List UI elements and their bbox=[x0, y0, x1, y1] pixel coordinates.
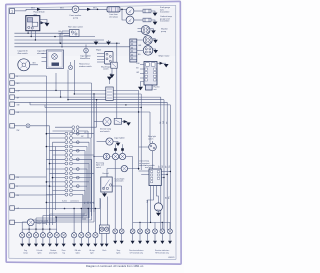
wire plug b stubs bbox=[137, 39, 156, 40]
coolant temp sender bbox=[143, 18, 151, 22]
svg-text:RH front/side only: RH front/side only bbox=[155, 251, 169, 254]
wire bus 202 bbox=[46, 201, 94, 203]
ground horn bbox=[157, 211, 159, 213]
wire s2 feed bbox=[14, 83, 91, 138]
wire hazard unit to ground bbox=[40, 20, 47, 23]
wire band 107.5 bbox=[45, 105, 141, 108]
wire gauge to sender bbox=[134, 10, 143, 12]
lamp bottom midleft bbox=[86, 233, 91, 238]
ground unit top bbox=[164, 64, 169, 67]
wire feeds to unit bbox=[139, 171, 149, 175]
svg-text:and switch: and switch bbox=[100, 130, 109, 133]
wire pu square to fog lamp bbox=[14, 221, 27, 223]
svg-text:switch: switch bbox=[103, 68, 109, 71]
lamp panel L2 bbox=[84, 48, 89, 53]
svg-text:window switch: window switch bbox=[79, 65, 92, 68]
svg-text:unit: unit bbox=[154, 88, 157, 91]
lamp bottom right bbox=[168, 229, 173, 234]
svg-text:lights: lights bbox=[76, 251, 80, 254]
connector unit U3 bbox=[149, 169, 161, 186]
wash wipe switch S2 bbox=[105, 52, 114, 65]
svg-text:LGP: LGP bbox=[17, 91, 20, 93]
lamp bottom right bbox=[145, 229, 150, 234]
wire unit to ground top bbox=[157, 62, 166, 64]
svg-text:WO: WO bbox=[60, 7, 64, 9]
ground unit bottom left bbox=[141, 82, 145, 87]
ground wiper a bbox=[151, 30, 156, 33]
wire chain left lamps bbox=[22, 229, 57, 233]
wire gauge to sender bbox=[134, 19, 143, 21]
ground lamp bbox=[132, 234, 134, 241]
lamp bottom right bbox=[130, 229, 135, 234]
lamp bottom left bbox=[20, 233, 25, 238]
ground lamp bbox=[94, 238, 96, 244]
svg-text:transmitter: transmitter bbox=[160, 11, 170, 14]
ground lamp bbox=[35, 238, 37, 244]
node 1 terminal square bbox=[10, 9, 15, 14]
svg-text:1: 1 bbox=[11, 10, 13, 14]
wire gauge branch bbox=[122, 9, 126, 20]
wire glovebox left bbox=[94, 121, 103, 123]
wire lighter stub bbox=[30, 64, 38, 66]
ladder third circles bbox=[76, 132, 79, 187]
ladder bus verticals bbox=[46, 76, 55, 225]
ground wiper motor bbox=[153, 50, 158, 53]
ground lamp bbox=[49, 238, 51, 244]
ground lamp bbox=[154, 234, 156, 241]
wire staircase from ladder feeders bbox=[22, 94, 94, 222]
ground lamp bbox=[121, 234, 123, 241]
svg-text:WO: WO bbox=[93, 7, 97, 9]
svg-text:GW: GW bbox=[17, 104, 20, 106]
wire vertical 117 bbox=[116, 43, 118, 118]
wire unit bottom drops bbox=[148, 186, 159, 223]
ground wiper b bbox=[153, 40, 158, 43]
lamp L4 bbox=[68, 65, 72, 69]
svg-text:Wiper motor: Wiper motor bbox=[159, 55, 170, 58]
clock K1 box bbox=[47, 50, 64, 69]
lamp bottom rmid bbox=[113, 229, 118, 234]
wire rmid drops bbox=[112, 160, 122, 229]
ground hazard unit bbox=[45, 23, 50, 27]
wire horn stub drops bbox=[60, 31, 64, 47]
ladder connector pairs bbox=[65, 132, 73, 196]
relay K2 bbox=[106, 87, 113, 100]
relay sub box bbox=[146, 85, 153, 90]
ground lamp bbox=[63, 238, 65, 244]
lamp clock pair bbox=[105, 227, 109, 231]
ground lamp bbox=[56, 238, 58, 244]
terminal squares upper bbox=[10, 74, 15, 78]
page background bbox=[0, 0, 184, 273]
connector strip X1 bbox=[130, 39, 137, 62]
lamp bottom right bbox=[160, 229, 165, 234]
junction dots band bbox=[55, 90, 56, 91]
lamp bottom left bbox=[47, 233, 52, 238]
wire midleft drops bbox=[74, 209, 95, 233]
inline connector arrow bbox=[41, 21, 44, 24]
svg-text:Diagram 2 continued. All model: Diagram 2 continued. All models from 199… bbox=[86, 264, 144, 268]
wire fuse to gauge bbox=[120, 8, 126, 10]
glovebox switch box bbox=[114, 118, 121, 124]
svg-text:Clock: Clock bbox=[102, 250, 106, 252]
ground cigar bbox=[116, 143, 121, 146]
cigar lighter L6 bbox=[106, 138, 113, 145]
ground lamp bbox=[80, 238, 82, 244]
hazard pilot lamp L7 bbox=[121, 165, 127, 171]
rear fog lamp L8 bbox=[27, 219, 34, 226]
lamp inline L3 bbox=[26, 124, 30, 128]
wire bottom right link bbox=[133, 221, 171, 223]
svg-text:lights: lights bbox=[38, 251, 42, 254]
wiper motor M2 plug a bbox=[141, 26, 150, 35]
wire s3 feed bbox=[14, 73, 138, 170]
wiper motor M2 plug b bbox=[143, 36, 152, 45]
terminal square PU lamp bbox=[10, 124, 15, 128]
label lamp names bbox=[23, 249, 169, 254]
clock display bbox=[52, 63, 60, 66]
svg-text:transmitter: transmitter bbox=[160, 20, 170, 23]
gauge G1 fuel bbox=[126, 7, 134, 15]
gauge G2 coolant temp bbox=[126, 16, 134, 24]
fuse F1 line fuse bbox=[107, 7, 120, 12]
fuel tank sender bbox=[143, 9, 151, 13]
ground fuel sender bbox=[151, 11, 155, 13]
wire gp row 208 bbox=[14, 198, 100, 209]
wire hazard lamp bbox=[107, 169, 139, 177]
wire top feed bbox=[15, 9, 107, 11]
ground heated rear window bbox=[110, 68, 112, 74]
svg-text:LGB: LGB bbox=[136, 63, 139, 65]
junction squares bbox=[114, 148, 117, 151]
ground lamp bbox=[28, 238, 30, 244]
wire lamp stub bbox=[85, 45, 87, 59]
svg-text:H30929: H30929 bbox=[168, 257, 174, 259]
svg-text:LH front/side only: LH front/side only bbox=[130, 251, 143, 254]
svg-text:GW: GW bbox=[163, 121, 165, 124]
ground lamp bbox=[147, 234, 149, 241]
wire stop light bbox=[139, 141, 153, 169]
wire s6 feed bbox=[14, 112, 150, 144]
inline connector arrow bbox=[160, 62, 163, 65]
wire wiper switch stubs bbox=[97, 54, 105, 63]
lamp clock pair bbox=[100, 227, 104, 231]
ladder junction dots bbox=[46, 133, 48, 135]
wire clock pair feeds bbox=[101, 197, 108, 226]
lamp bottom rmid bbox=[119, 229, 124, 234]
junction dots bundle bbox=[54, 36, 55, 37]
inline connector arrow bbox=[37, 8, 41, 11]
wire panel row bbox=[94, 144, 133, 222]
svg-text:switch: switch bbox=[96, 166, 101, 169]
lamp bottom midleft bbox=[79, 233, 84, 238]
lamp bottom midleft bbox=[93, 233, 98, 238]
wire band 104.9 bbox=[30, 102, 170, 230]
inline connector arrow bbox=[87, 8, 91, 11]
svg-text:Cigar lighter: Cigar lighter bbox=[114, 137, 125, 140]
lamp bottom right bbox=[153, 229, 158, 234]
wire s1 feed bbox=[14, 75, 46, 77]
wire s4 feed bbox=[14, 90, 160, 230]
wire plug a stubs bbox=[138, 29, 154, 32]
svg-text:Hazard: Hazard bbox=[103, 172, 109, 175]
ground lamp bbox=[114, 234, 116, 241]
svg-text:GW: GW bbox=[147, 200, 149, 203]
ground lamp bbox=[87, 238, 89, 244]
svg-text:RB: RB bbox=[17, 195, 19, 197]
svg-text:Wiper: Wiper bbox=[96, 50, 102, 52]
lamp bottom midleft bbox=[72, 233, 77, 238]
ladder rows bbox=[46, 134, 94, 195]
svg-text:and switch: and switch bbox=[115, 180, 124, 183]
glovebox lamp L5 bbox=[103, 118, 111, 126]
ladder right feeders bbox=[83, 134, 94, 220]
diagram border frame bbox=[9, 5, 176, 259]
wire clock stubs bbox=[42, 54, 47, 62]
svg-text:GB: GB bbox=[93, 202, 95, 204]
junction hazard bbox=[138, 168, 140, 170]
svg-text:plate lights: plate lights bbox=[49, 251, 57, 254]
lamp bottom left bbox=[33, 233, 38, 238]
ground band b bbox=[108, 40, 110, 42]
wire b4 bbox=[68, 70, 164, 230]
wire unit left stubs bbox=[140, 65, 144, 79]
wire to lamp bbox=[14, 125, 26, 127]
lamp box pair clock bbox=[99, 225, 109, 233]
stop light switch S4 bbox=[149, 143, 157, 151]
wire cigar left bbox=[97, 141, 106, 143]
ground lamp bbox=[73, 238, 75, 244]
svg-text:WO: WO bbox=[31, 7, 35, 9]
wire right edge drops bbox=[133, 222, 170, 229]
panel circles row bbox=[103, 153, 109, 159]
junction bbox=[97, 9, 99, 11]
hazard flasher unit U1 bbox=[26, 16, 40, 31]
ground hazard switch bbox=[104, 192, 106, 194]
ground clock lamp bbox=[106, 233, 108, 243]
hazard switch S5 bbox=[101, 177, 112, 192]
svg-text:illumination: illumination bbox=[80, 57, 90, 60]
washer pump M1 bbox=[72, 6, 79, 13]
svg-text:(10 amp): (10 amp) bbox=[109, 16, 117, 18]
svg-text:Horn tone switch: Horn tone switch bbox=[68, 26, 83, 29]
wire lower squares bbox=[14, 177, 52, 195]
lamp bottom left bbox=[27, 233, 32, 238]
svg-text:WP: WP bbox=[17, 97, 20, 99]
junction chain dots bbox=[28, 228, 29, 229]
wiper motor M2 body bbox=[143, 46, 153, 56]
ground glovebox bbox=[124, 120, 128, 123]
horn M3 bbox=[154, 203, 162, 211]
ground lamp bbox=[21, 238, 23, 244]
wire pairs upper bbox=[53, 127, 97, 138]
wire fog lamp right bbox=[34, 217, 56, 222]
lamp bottom left bbox=[61, 233, 66, 238]
wire b2 bbox=[74, 60, 141, 170]
wire to ground bbox=[122, 120, 126, 122]
wire s5 feed bbox=[14, 102, 167, 230]
ground lamp bbox=[139, 234, 141, 241]
wire bundle below hazard unit bbox=[14, 31, 131, 47]
ground clock lamp bbox=[101, 233, 103, 243]
svg-text:lights: lights bbox=[116, 251, 120, 254]
wire motor stubs bbox=[137, 49, 156, 50]
wire cigar bbox=[113, 142, 118, 143]
connector pair rows upper bbox=[72, 126, 75, 129]
purple page frame bbox=[7, 2, 181, 263]
svg-text:connectors: connectors bbox=[70, 200, 79, 203]
ground lamp bbox=[42, 238, 44, 244]
svg-text:pump: pump bbox=[161, 31, 167, 33]
control unit U2 bbox=[144, 62, 157, 86]
ground lamp bbox=[161, 234, 163, 241]
svg-text:pump: pump bbox=[73, 17, 79, 19]
lamp bottom left bbox=[40, 233, 45, 238]
lamp in clock bbox=[52, 54, 58, 60]
wire staircase drops bbox=[22, 214, 57, 229]
svg-text:switch: switch bbox=[148, 138, 153, 141]
horn switch S1 bbox=[70, 30, 80, 37]
lamp bottom left bbox=[54, 233, 59, 238]
svg-text:illum switch: illum switch bbox=[18, 52, 28, 55]
wire horn stubs bbox=[64, 31, 70, 36]
ground band a bbox=[95, 40, 97, 42]
wire lamp4 bbox=[70, 62, 72, 65]
svg-text:B: B bbox=[17, 76, 18, 78]
svg-text:fog: fog bbox=[62, 252, 64, 254]
svg-text:LGB: LGB bbox=[138, 45, 141, 47]
lamp bottom right bbox=[138, 229, 143, 234]
svg-text:lamps: lamps bbox=[23, 252, 28, 254]
terminal squares lower bbox=[10, 175, 15, 179]
cigar lighter L1 bbox=[18, 59, 30, 71]
heated rear window switch S3 bbox=[111, 62, 117, 68]
junction staircase dots bbox=[46, 202, 48, 204]
svg-text:light: light bbox=[90, 251, 94, 254]
ground relay bbox=[109, 80, 111, 84]
wire unit right stubs bbox=[161, 172, 170, 178]
ground lamp bbox=[169, 234, 171, 241]
ground coolant sender bbox=[151, 20, 155, 22]
